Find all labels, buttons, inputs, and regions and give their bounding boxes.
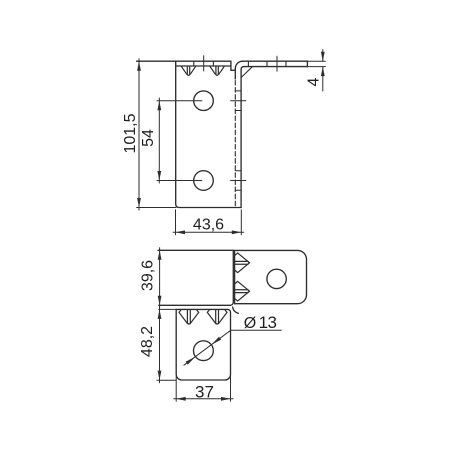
flange long tick bbox=[276, 56, 278, 71]
side profile: inner bend curve bbox=[241, 67, 244, 70]
svg-text:43,6: 43,6 bbox=[193, 216, 224, 233]
tooth F2 (front view claw right) bbox=[210, 66, 224, 75]
dimension 39,6 line bbox=[159, 248, 161, 308]
arrowhead 37 right bbox=[221, 397, 231, 401]
front view: band division left bbox=[193, 61, 195, 66]
side hole edge tick 2b bbox=[235, 189, 241, 191]
arrowhead leader lower bbox=[186, 357, 196, 365]
front view: top band line bbox=[176, 65, 231, 67]
side profile: hidden outer surface dashed line bbox=[234, 81, 236, 208]
arrowhead 39,6 bottom bbox=[158, 296, 162, 306]
arrowhead 4 top bbox=[321, 52, 325, 62]
arrowhead leader upper bbox=[211, 337, 221, 345]
plan view upper rect: bottom edge bbox=[159, 304, 231, 306]
flange division 1 bbox=[247, 61, 249, 66]
arrowhead 48,2 top bbox=[158, 309, 162, 319]
arrowhead 43,6 right bbox=[232, 230, 242, 234]
plan flange: bend fillet arc bbox=[233, 307, 239, 313]
svg-text:54: 54 bbox=[140, 129, 157, 147]
arrowhead 54 bottom bbox=[157, 171, 161, 181]
front view: bottom edge bbox=[179, 207, 241, 209]
tooth P-A (plan flange claw upper) bbox=[235, 253, 250, 273]
svg-text:48,2: 48,2 bbox=[139, 326, 156, 357]
plan flange: left edge bbox=[234, 250, 236, 303]
dimension 4 line and extensions bbox=[307, 50, 325, 91]
arrowhead 4 bottom bbox=[321, 67, 325, 77]
svg-text:101,5: 101,5 bbox=[122, 113, 139, 153]
flange division 3 bbox=[285, 61, 287, 66]
flange: bottom edge bbox=[244, 66, 308, 68]
dimension 101,5 line bbox=[138, 59, 140, 210]
dimension 43,6 line and extensions bbox=[173, 210, 244, 235]
arrowhead 101,5 top bbox=[137, 61, 141, 70]
front view: left edge with rounded bottom-left corner bbox=[176, 61, 180, 207]
dimension 54 line and extensions bbox=[157, 98, 202, 183]
diameter leader line bbox=[184, 330, 281, 365]
side hole edge tick 2a bbox=[235, 170, 241, 172]
side hole edge tick 1a bbox=[235, 90, 241, 92]
tooth P-D (lower square claw right) bbox=[207, 310, 227, 324]
arrowhead 43,6 left bbox=[176, 230, 186, 234]
plan view upper rect: top edge bbox=[158, 249, 233, 251]
hole H2 (front view lower hole) bbox=[194, 171, 214, 191]
svg-text:37: 37 bbox=[195, 382, 214, 401]
arrowhead 101,5 bottom bbox=[137, 198, 141, 208]
plan flange: outline rounded right bbox=[235, 250, 307, 303]
plan view upper rect: right edge with corner bbox=[230, 250, 233, 305]
arrowhead 48,2 bottom bbox=[158, 371, 162, 381]
flange: top edge bbox=[243, 60, 308, 62]
side profile: inner surface line bbox=[240, 69, 242, 207]
side profile: outer bend curve bbox=[235, 61, 242, 68]
arrowhead 54 top bbox=[157, 101, 161, 111]
tooth P-C (lower square claw left) bbox=[179, 310, 199, 324]
side hole center tick 1 bbox=[231, 100, 246, 102]
dimension 48,2 line and extensions bbox=[157, 307, 176, 383]
bend diagonal line bbox=[242, 67, 253, 78]
svg-text:13: 13 bbox=[259, 313, 277, 332]
svg-text:39,6: 39,6 bbox=[140, 260, 157, 291]
front view: bottom extension line for 101,5 bbox=[137, 207, 176, 209]
flange: end cap bbox=[306, 61, 308, 66]
svg-text:Ø: Ø bbox=[244, 315, 256, 332]
side hole edge tick 1b bbox=[235, 110, 241, 112]
hole H1 (front view upper hole) bbox=[194, 91, 214, 111]
plan lower square outline bbox=[176, 309, 230, 380]
tooth P-B (plan flange claw lower) bbox=[235, 281, 250, 301]
side profile: outer surface solid stub bbox=[234, 69, 236, 80]
arrowhead 39,6 top bbox=[158, 250, 162, 259]
front view: top-right notch bbox=[231, 61, 235, 70]
flange division 2 bbox=[266, 61, 268, 66]
front view: band division right bbox=[212, 61, 214, 66]
dimension 37 line and extensions bbox=[174, 377, 233, 402]
hole H4 (plan lower square hole) bbox=[194, 341, 214, 361]
front view: top centerline tick bbox=[203, 56, 205, 71]
tooth F1 (front view claw left) bbox=[181, 66, 195, 75]
side hole center tick 2 bbox=[231, 180, 246, 182]
hole H3 (plan flange hole) bbox=[267, 269, 286, 288]
arrowhead 37 left bbox=[176, 397, 186, 401]
svg-text:4: 4 bbox=[306, 77, 323, 86]
front view: top edge with 101,5 extension bbox=[137, 60, 231, 62]
